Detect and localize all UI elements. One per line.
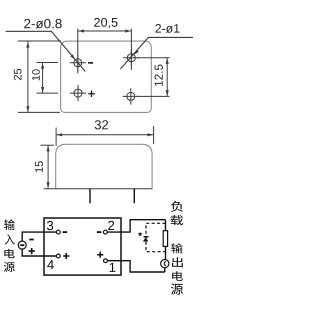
dimension 32 [56, 126, 154, 146]
terminal 4 [56, 254, 60, 258]
dimension 12.5 [137, 58, 170, 97]
polarity mark plus (top view) [88, 91, 94, 97]
rail output source to bottom wire [164, 268, 166, 273]
label load (Chinese) [171, 201, 183, 212]
label 2-o1 with leader [155, 24, 179, 33]
terminal 3 [56, 230, 60, 234]
output AC source symbol [161, 260, 169, 268]
optional snubber branch dashed box [146, 223, 166, 251]
side view pin right [133, 189, 135, 203]
input DC source symbol [18, 241, 26, 249]
load resistor [163, 231, 167, 247]
side view pin left [89, 189, 91, 203]
wire input minus: source to terminal 3 [22, 232, 56, 241]
dimension 10 [37, 63, 59, 94]
side view body [56, 144, 152, 189]
polarity mark minus (top view) [88, 62, 93, 64]
terminal 1 [104, 259, 108, 263]
rail resistor to output source [165, 246, 167, 259]
wire input plus: source to terminal 4 [22, 249, 56, 256]
SSR relay box [44, 218, 121, 275]
label 2-o0.8 with leader [24, 19, 61, 29]
top view body outline [61, 41, 152, 112]
load rail top segment [165, 220, 167, 231]
mounting hole TL 0.8mm [70, 55, 86, 71]
terminal 1 plus sign [97, 252, 103, 258]
dimension 20,5 [78, 29, 132, 74]
terminal 4 plus sign [63, 253, 69, 259]
terminal 3 minus sign [63, 231, 68, 233]
wire output plus: terminal 1 to source rail [107, 261, 164, 272]
wire output minus: terminal 2 to load rail [107, 220, 165, 232]
input polarity minus label [29, 239, 33, 241]
input polarity plus label [29, 248, 35, 254]
dimension 25 [18, 41, 61, 112]
mounting hole TR 1mm [123, 50, 139, 66]
terminal 2 [104, 230, 108, 234]
diode footnote asterisk (star) [138, 232, 143, 237]
terminal 2 minus sign [97, 231, 102, 233]
protection diode [144, 236, 149, 238]
side view base line [44, 188, 153, 190]
mounting hole BL 0.8mm [70, 85, 86, 101]
label input power (Chinese) [4, 219, 15, 230]
mounting hole BR 1mm [123, 88, 139, 104]
label output power (Chinese) [171, 243, 183, 253]
dimension 15 [40, 145, 54, 188]
